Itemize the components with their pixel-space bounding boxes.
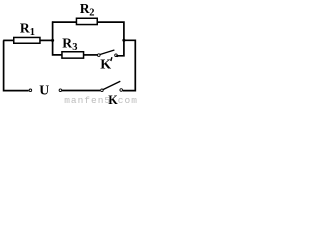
wire: R2 row left segment — [52, 21, 77, 23]
svg-text:K: K — [108, 93, 118, 106]
wire: R2 row right segment + right vertical down to K' row — [97, 22, 124, 56]
switch K' left contact — [98, 54, 101, 57]
switch K left contact — [101, 89, 104, 92]
svg-text:2: 2 — [89, 8, 94, 19]
junction dot node A — [51, 39, 54, 42]
resistor R1 — [14, 37, 40, 43]
svg-text:R: R — [20, 21, 30, 36]
switch K' right contact — [115, 54, 118, 57]
wire: R1 row right segment to node — [41, 39, 54, 41]
resistor R2 — [76, 18, 97, 24]
svg-text:R: R — [62, 35, 72, 50]
switch K lever — [103, 81, 120, 89]
switch K' lever — [100, 50, 114, 55]
wire: R1 row left segment — [3, 39, 14, 41]
svg-text:1: 1 — [30, 27, 35, 38]
resistor R3 — [62, 52, 84, 58]
svg-text:manfen5.com: manfen5.com — [64, 95, 137, 106]
wire: left column + bottom-left segment — [4, 40, 29, 90]
wire: R3 to K' left contact — [84, 54, 98, 56]
svg-text:R: R — [80, 1, 90, 16]
svg-text:3: 3 — [72, 42, 77, 53]
svg-text:U: U — [39, 82, 49, 97]
junction dot node B — [122, 39, 125, 42]
junction dot at K' right contact — [116, 55, 118, 57]
wire: U right terminal to K left contact — [62, 90, 100, 92]
wire: mid vertical riser (R2 row down to R3 row) — [53, 21, 63, 55]
terminal U left — [29, 89, 32, 92]
svg-text:K: K — [100, 58, 111, 73]
wire: node B to right edge column down to bottom-right corner — [123, 40, 136, 90]
switch K right contact — [120, 89, 123, 92]
terminal U right — [59, 89, 62, 92]
